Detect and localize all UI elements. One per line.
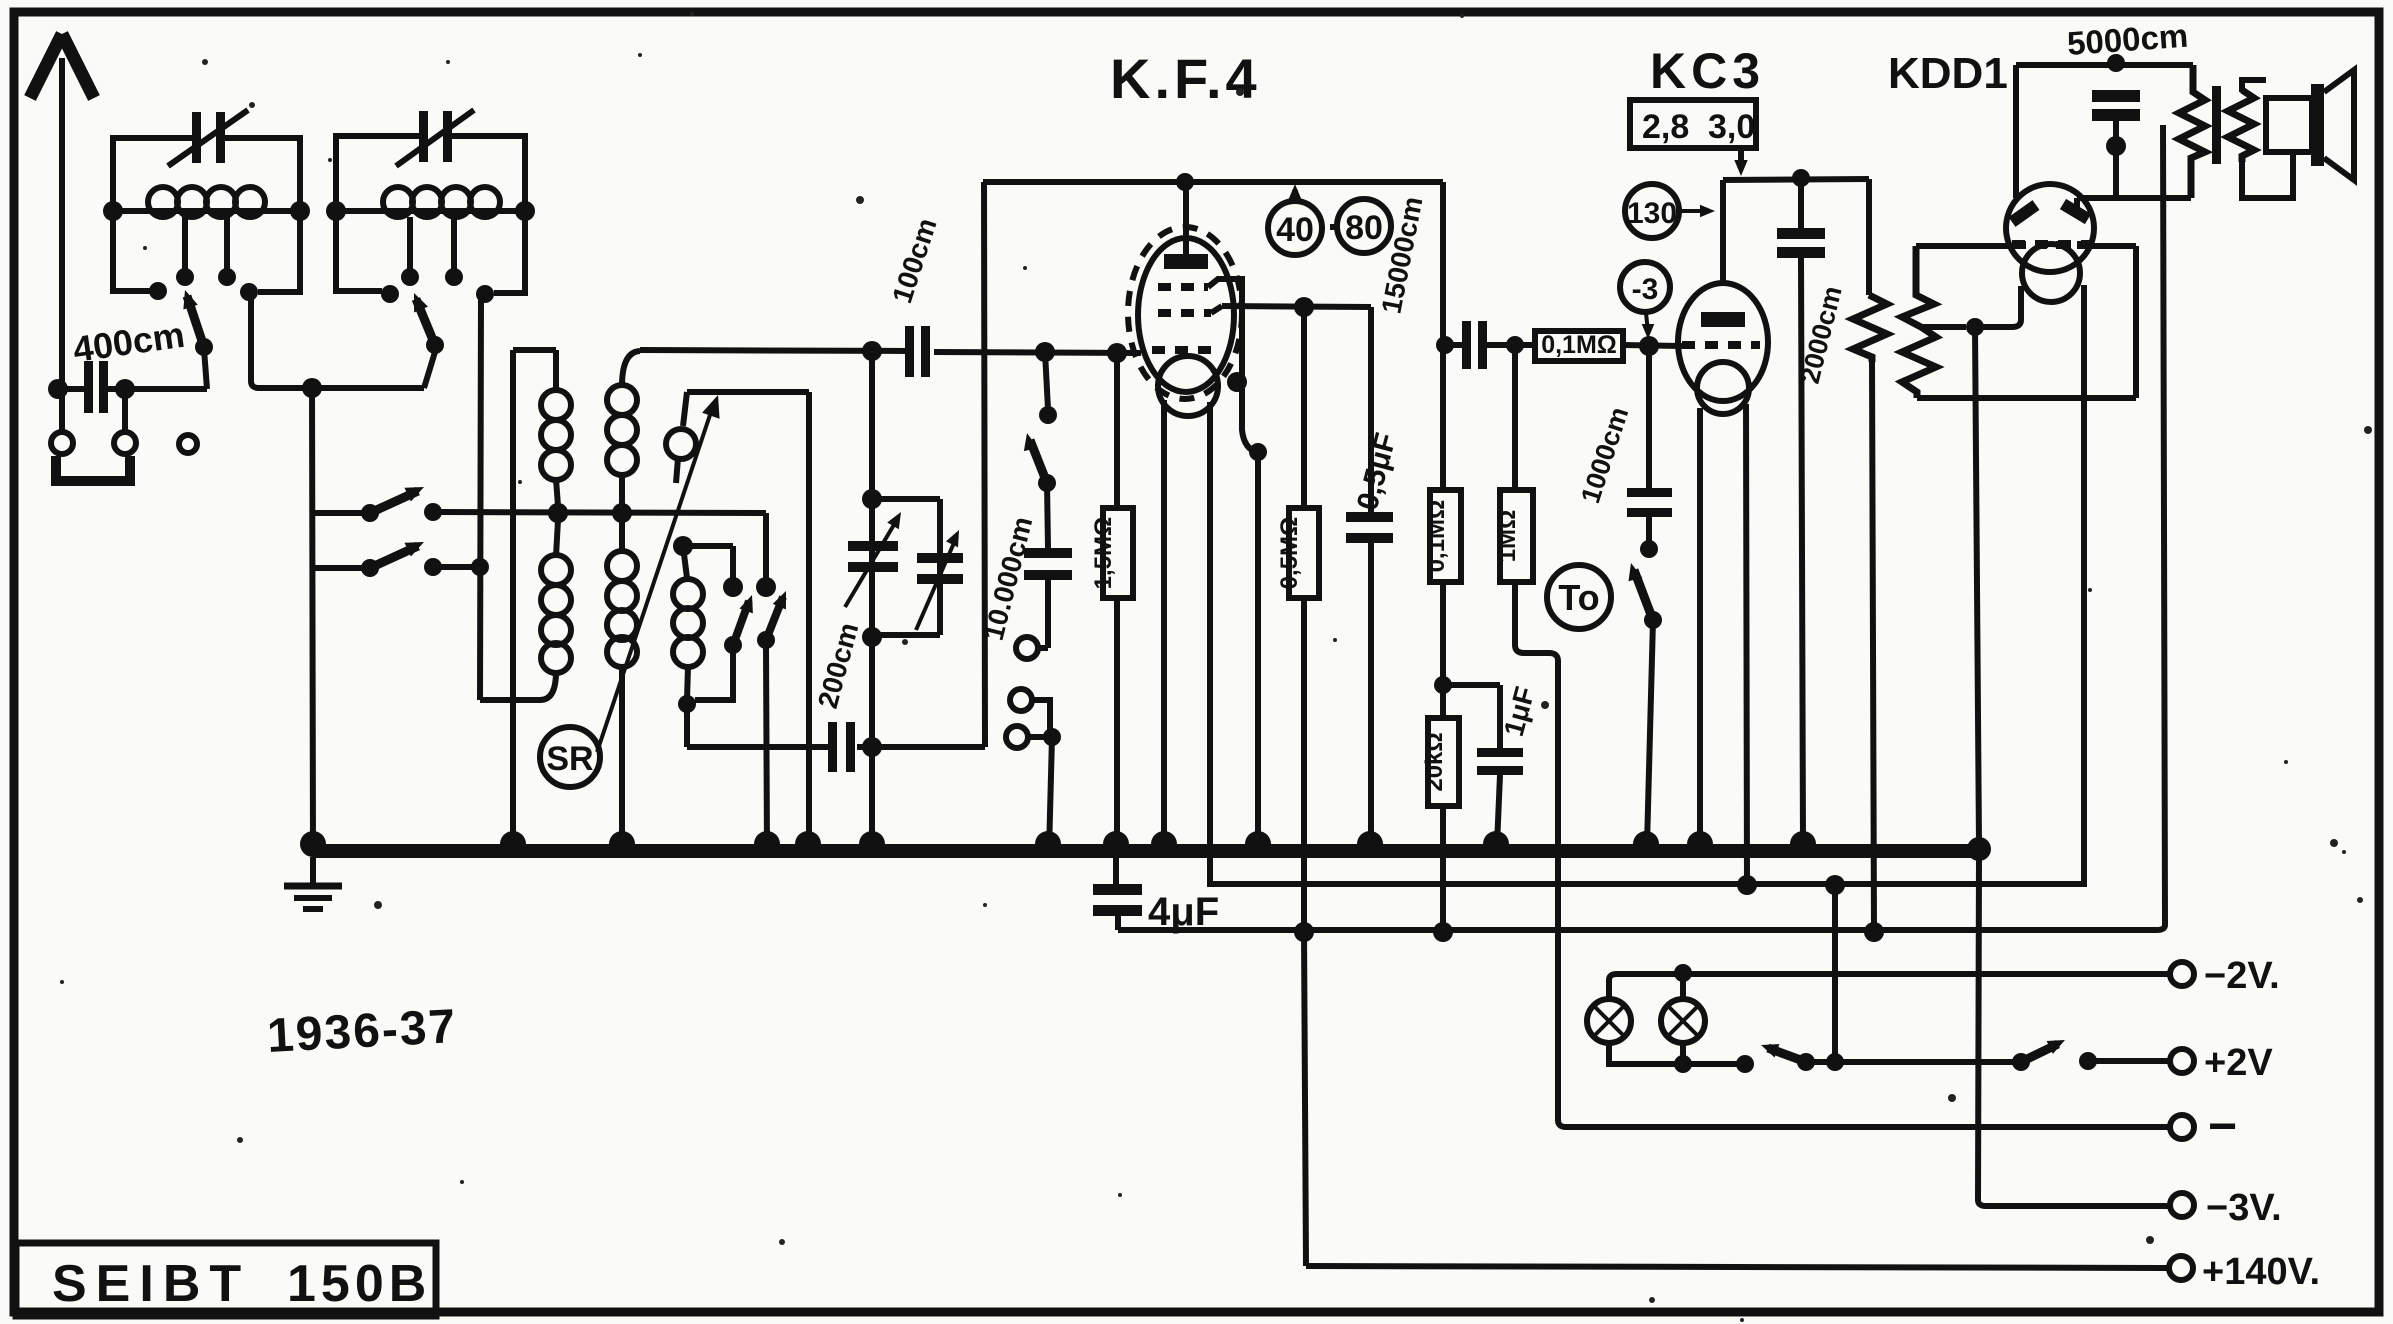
svg-text:SR: SR <box>546 740 593 778</box>
svg-text:−3V.: −3V. <box>2206 1187 2282 1229</box>
svg-text:KDD1: KDD1 <box>1888 49 2008 98</box>
svg-text:0,5MΩ: 0,5MΩ <box>1276 517 1303 590</box>
svg-text:K.F.4: K.F.4 <box>1110 47 1261 110</box>
svg-text:-3: -3 <box>1632 273 1659 306</box>
svg-text:1MΩ: 1MΩ <box>1494 510 1521 563</box>
svg-text:KC3: KC3 <box>1650 43 1765 99</box>
svg-text:0,1MΩ: 0,1MΩ <box>1541 331 1617 359</box>
svg-text:3,0: 3,0 <box>1708 108 1755 146</box>
svg-text:80: 80 <box>1345 209 1383 247</box>
svg-text:+2V: +2V <box>2204 1042 2273 1084</box>
svg-text:2,8: 2,8 <box>1642 108 1689 146</box>
svg-text:150B: 150B <box>287 1255 431 1313</box>
svg-text:20kΩ: 20kΩ <box>1421 732 1448 791</box>
svg-text:0,1MΩ: 0,1MΩ <box>1423 500 1450 573</box>
svg-text:−2V.: −2V. <box>2204 955 2280 997</box>
svg-text:40: 40 <box>1276 211 1314 249</box>
svg-text:130: 130 <box>1627 197 1677 230</box>
svg-text:+140V.: +140V. <box>2202 1251 2320 1293</box>
svg-text:1936-37: 1936-37 <box>266 1000 459 1063</box>
svg-text:SEIBT: SEIBT <box>52 1255 250 1313</box>
svg-text:To: To <box>1558 577 1599 618</box>
svg-text:1,5MΩ: 1,5MΩ <box>1090 517 1117 590</box>
svg-text:−: − <box>2208 1098 2237 1154</box>
